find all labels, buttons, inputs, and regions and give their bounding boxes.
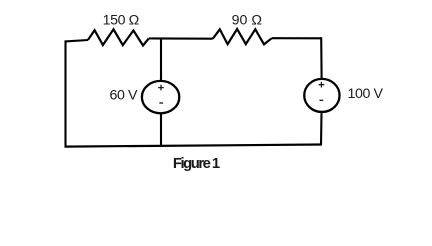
V1 plus sign (158, 85, 164, 91)
wire: node A vertical drop to V1 (160, 39, 162, 81)
voltage source V2 100V circle (304, 79, 339, 112)
caption Figure 1 (173, 156, 220, 172)
wire: top middle segment from R1 to R2 through node A (149, 37, 213, 39)
wire: top-right segment from R2 to top-right corner (272, 37, 321, 39)
wire: bottom horizontal side (65, 145, 322, 147)
wire: left vertical side (64, 40, 66, 146)
svg-text:100 V: 100 V (348, 86, 384, 102)
voltage source V1 60V circle (142, 81, 179, 113)
wire: V1 bottom to bottom rail (160, 114, 162, 146)
wire: V2 bottom to bottom-right corner (320, 113, 323, 145)
svg-text:150 Ω: 150 Ω (103, 13, 139, 29)
svg-text:Figure: Figure (173, 156, 211, 172)
svg-text:1: 1 (212, 156, 220, 172)
svg-text:90 Ω: 90 Ω (232, 12, 262, 28)
wire: top-left lead from corner to R1 (66, 40, 89, 41)
resistor R2 90 ohm zigzag (213, 29, 272, 44)
resistor R1 150 ohm zigzag (88, 29, 149, 45)
V2 plus sign (319, 82, 325, 88)
wire: right vertical top segment to V2 (320, 37, 322, 78)
svg-text:60 V: 60 V (110, 88, 139, 104)
V1 minus sign (159, 102, 163, 104)
V2 minus sign (320, 99, 324, 101)
